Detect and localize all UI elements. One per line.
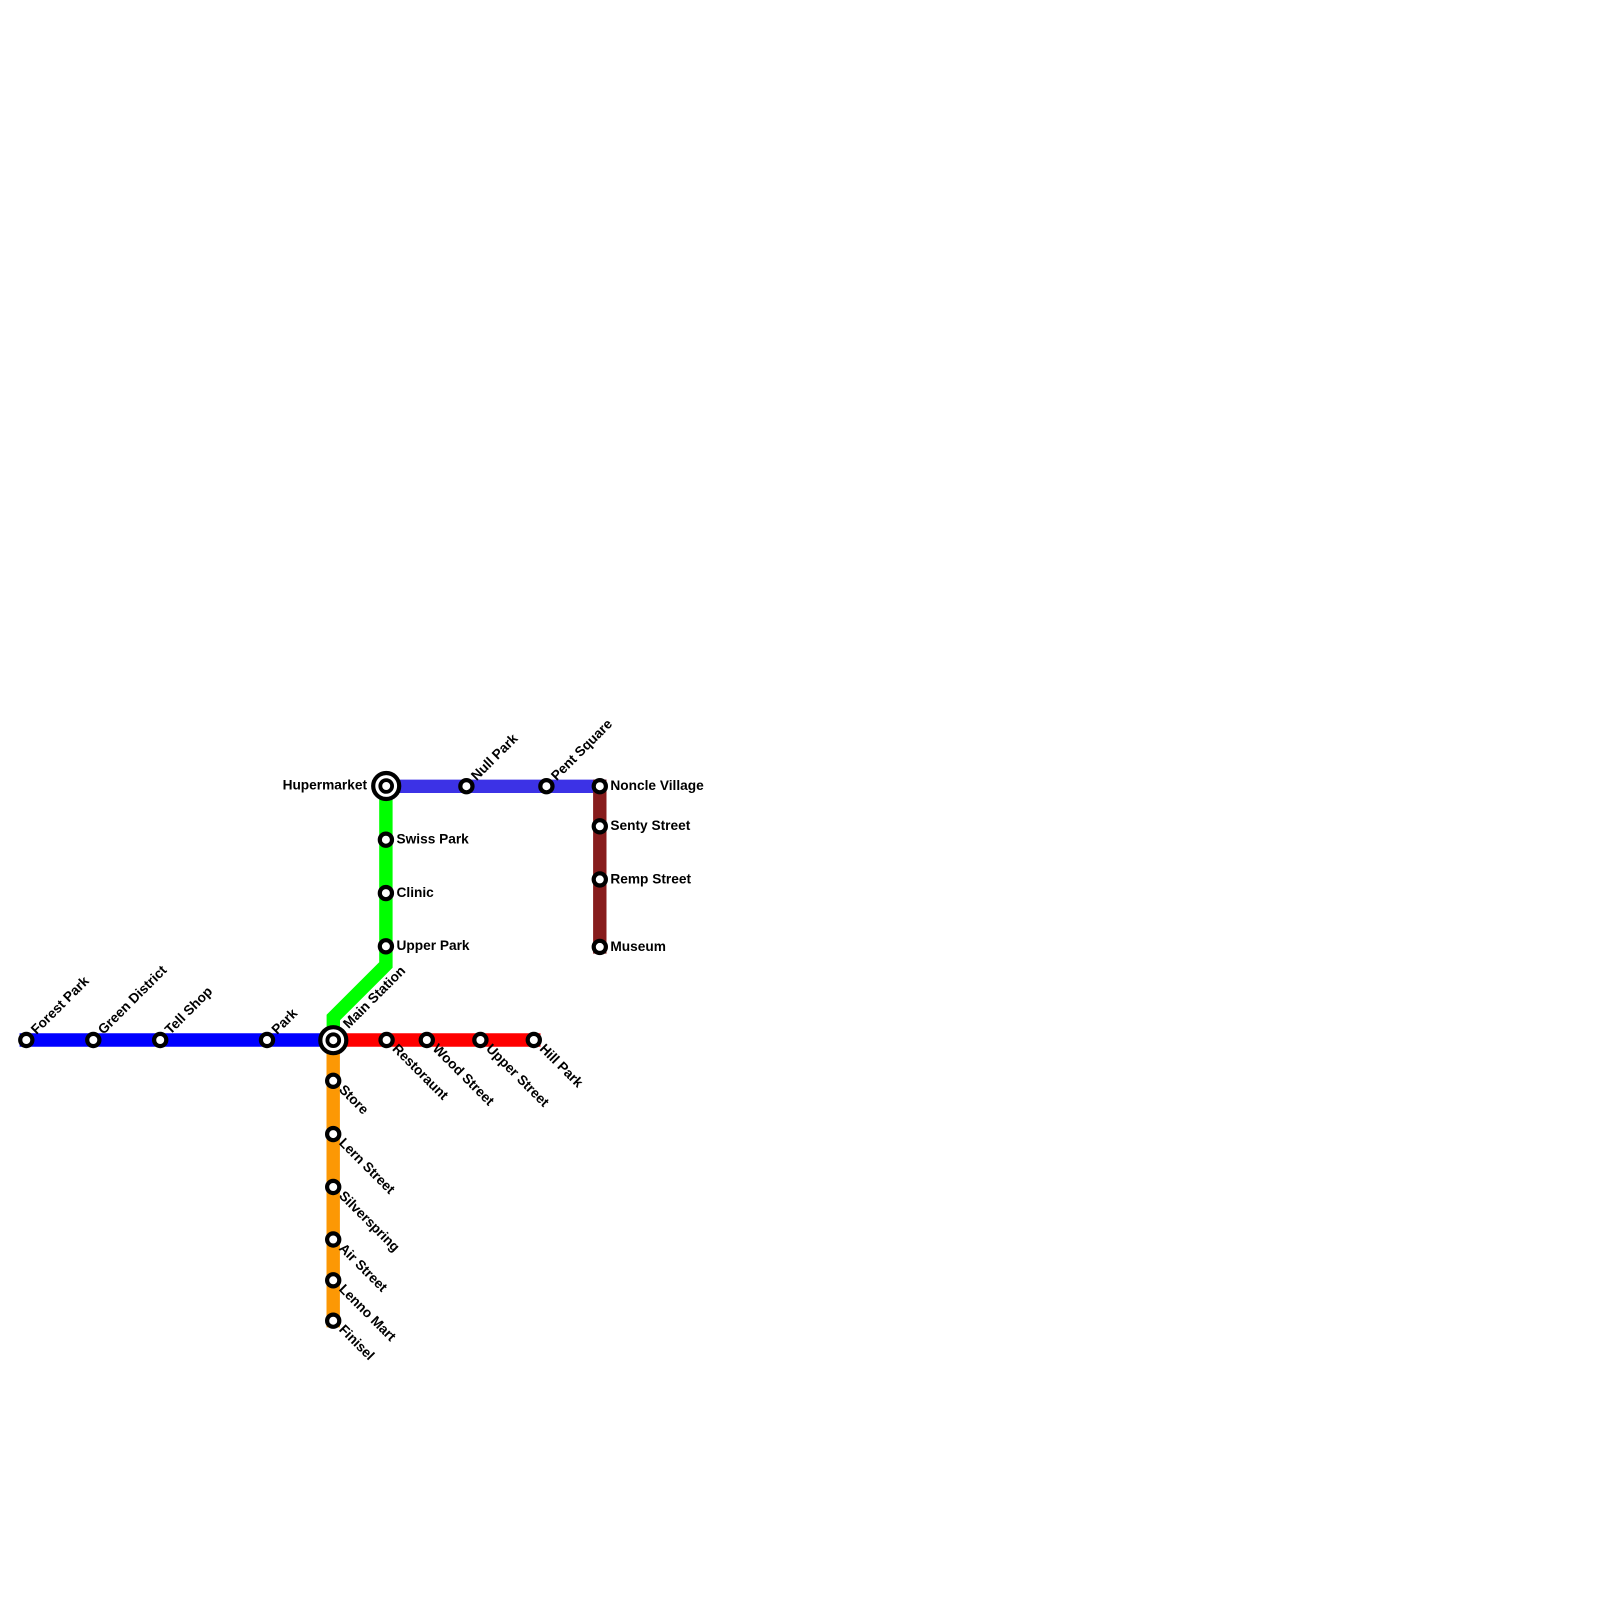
line: orange line Main Station-Finisel <box>327 1040 340 1321</box>
line: maroon line Noncle Village-Museum <box>593 786 606 947</box>
station Green District <box>87 962 170 1046</box>
station Tell Shop <box>154 984 215 1046</box>
station Main Station (interchange) <box>320 963 408 1053</box>
svg-text:Remp Street: Remp Street <box>610 871 691 886</box>
station Lenno Mart <box>327 1274 399 1344</box>
station Remp Street <box>594 871 692 886</box>
svg-text:Museum: Museum <box>610 939 666 954</box>
svg-text:Upper Park: Upper Park <box>397 938 470 953</box>
station Park <box>261 1005 301 1046</box>
line: green line Hupermarket-Main Station <box>333 786 386 1040</box>
station Store <box>327 1075 372 1118</box>
station Forest Park <box>20 973 92 1046</box>
station Wood Street <box>421 1034 498 1109</box>
station Silverspring <box>327 1181 403 1255</box>
station Upper Street <box>474 1034 552 1110</box>
station Noncle Village <box>594 778 704 793</box>
station Swiss Park <box>380 832 469 847</box>
station Museum <box>594 939 666 954</box>
svg-text:Senty Street: Senty Street <box>610 818 690 833</box>
station Senty Street <box>594 818 691 833</box>
station Clinic <box>380 885 434 900</box>
svg-text:Clinic: Clinic <box>397 885 435 900</box>
station Pent Square <box>540 716 615 792</box>
station Hupermarket (interchange) <box>283 773 400 799</box>
station Finisel <box>327 1315 377 1363</box>
svg-text:Swiss Park: Swiss Park <box>397 832 470 847</box>
line: red line Main Station-Hill Park <box>333 1033 534 1046</box>
station Restoraunt <box>381 1034 452 1103</box>
station Hill Park <box>528 1034 587 1091</box>
station Lern Street <box>327 1128 398 1197</box>
line: blue line Forest Park-Main Station <box>26 1033 333 1046</box>
station Upper Park <box>380 938 470 953</box>
svg-text:Noncle Village: Noncle Village <box>610 778 704 793</box>
station Air Street <box>327 1233 390 1295</box>
station Null Park <box>460 731 521 793</box>
line: violet line Hupermarket-Noncle Village <box>386 780 600 793</box>
svg-text:Hupermarket: Hupermarket <box>283 778 368 793</box>
